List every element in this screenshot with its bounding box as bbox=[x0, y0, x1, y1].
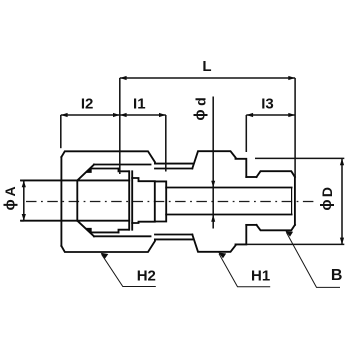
phi-D ext bottom bbox=[246, 243, 344, 245]
tube phi-d top line bbox=[166, 187, 291, 189]
arrow phi-A top bbox=[22, 181, 26, 188]
end face bbox=[294, 177, 296, 225]
phi-A dim line bbox=[23, 181, 25, 221]
ext line shared L/I2/I1 bbox=[119, 78, 121, 174]
phi-d leader line bbox=[212, 97, 214, 229]
seat step bottom bbox=[132, 222, 155, 223]
svg-text:D: D bbox=[319, 187, 335, 197]
svg-text:ϕ: ϕ bbox=[192, 109, 209, 120]
arrow I2 left bbox=[61, 113, 68, 117]
sleeve bottom lines bbox=[91, 232, 151, 236]
nut bore hole top line bbox=[21, 179, 129, 181]
dim I2 line bbox=[61, 114, 120, 116]
nut H2 outline top bbox=[61, 151, 155, 163]
nut H2 outline bottom bbox=[61, 239, 155, 252]
neck bottom bbox=[246, 224, 256, 226]
body hex H1 outline bottom bbox=[192, 225, 246, 252]
arrow phi-D bottom bbox=[340, 238, 344, 245]
arrow phi-d bottom bbox=[211, 215, 215, 222]
ext I2 left bbox=[60, 115, 62, 148]
svg-text:I1: I1 bbox=[133, 95, 146, 112]
nut hole face bbox=[76, 180, 78, 220]
phi-A ext stubs bbox=[21, 181, 24, 221]
svg-text:B: B bbox=[331, 267, 343, 284]
ext I1 right bbox=[165, 115, 167, 172]
dim L line bbox=[120, 77, 295, 79]
leader H1 line bbox=[219, 254, 270, 287]
collar bbox=[155, 181, 166, 221]
flare cone top bbox=[77, 165, 94, 181]
arrow I2 right bbox=[113, 113, 120, 117]
leader H2 arrowhead bbox=[101, 253, 109, 259]
leader B line bbox=[286, 232, 340, 287]
leader H1 arrowhead bbox=[218, 253, 226, 259]
svg-text:A: A bbox=[2, 186, 18, 196]
ext I3 left bbox=[245, 115, 247, 152]
body thread lines bottom bbox=[155, 235, 192, 240]
svg-text:I2: I2 bbox=[81, 95, 94, 112]
arrow phi-A bottom bbox=[22, 214, 26, 221]
phi-D ext top bbox=[255, 157, 344, 159]
centerline (axis) bbox=[26, 201, 314, 203]
arrow L left bbox=[120, 76, 127, 80]
svg-text:H2: H2 bbox=[137, 267, 156, 284]
tube phi-d bottom line bbox=[166, 214, 291, 216]
flare cone bottom bbox=[77, 221, 94, 237]
bead band B top bbox=[257, 171, 295, 177]
ferrule hatch wedge bottom bbox=[86, 228, 92, 233]
arrow I1 left bbox=[120, 113, 127, 117]
end bore line bbox=[291, 188, 293, 215]
svg-text:d: d bbox=[192, 97, 208, 106]
arrow L right bbox=[288, 76, 295, 80]
sleeve faces bbox=[129, 171, 132, 229]
phi-D dim line bbox=[341, 158, 343, 244]
svg-text:I3: I3 bbox=[261, 95, 274, 112]
arrow I3 right bbox=[288, 113, 295, 117]
arrow phi-D top bbox=[340, 158, 344, 165]
sleeve step top bbox=[119, 169, 129, 172]
svg-text:ϕ: ϕ bbox=[318, 199, 335, 210]
neck top bbox=[246, 176, 256, 178]
ferrule hatch wedge top bbox=[86, 168, 92, 173]
dim I1 line bbox=[120, 114, 166, 116]
dim I3 line bbox=[246, 114, 295, 116]
leader B arrowhead bbox=[285, 231, 293, 237]
sleeve top lines bbox=[91, 165, 151, 169]
arrow I1 right bbox=[159, 113, 166, 117]
body hex H1 outline top bbox=[192, 151, 246, 177]
svg-text:ϕ: ϕ bbox=[2, 199, 19, 210]
nut H2 left face bbox=[60, 157, 62, 246]
seat step top bbox=[132, 178, 155, 181]
arrow phi-d top bbox=[211, 181, 215, 188]
nut bore hole bottom line bbox=[21, 220, 129, 222]
sleeve step bottom bbox=[119, 230, 129, 233]
ext line right L/I3 bbox=[294, 78, 296, 177]
svg-text:L: L bbox=[202, 58, 211, 75]
bead band B bottom bbox=[257, 225, 295, 230]
svg-text:H1: H1 bbox=[251, 267, 270, 284]
leader H2 line bbox=[102, 254, 156, 286]
body thread lines top bbox=[155, 164, 192, 169]
arrow I3 left bbox=[246, 113, 253, 117]
